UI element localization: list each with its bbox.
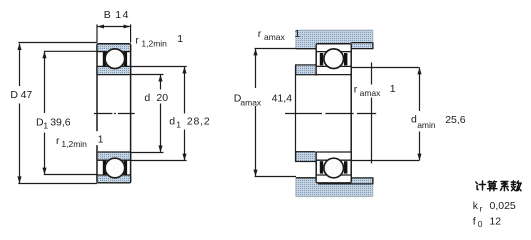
ext line d bottom	[131, 152, 164, 154]
dim line D (broken for text)	[19, 44, 21, 183]
svg-text:1: 1	[294, 28, 300, 40]
svg-text:amax: amax	[264, 32, 286, 42]
inner ring top band right view	[316, 66, 351, 74]
shaft shoulder bottom-left	[296, 152, 317, 162]
inner ring bottom band	[97, 152, 131, 160]
svg-text:r: r	[135, 34, 139, 46]
arrow d top	[158, 75, 162, 82]
ext line D top	[18, 42, 97, 44]
svg-text:k: k	[473, 200, 479, 212]
bore region mask (hide left edge of bearing in bore zone)	[315, 76, 318, 152]
dimension d1 28,2	[131, 67, 187, 161]
slot bar bottom-left right view	[320, 161, 323, 173]
ext line D1 bottom	[44, 174, 97, 176]
bearing outline right view	[316, 44, 351, 183]
dim line B	[97, 26, 130, 28]
heading 计算系数 (hand-drawn strokes)	[476, 181, 522, 191]
svg-text:1: 1	[390, 83, 396, 95]
ball top	[105, 49, 125, 69]
svg-text:47: 47	[21, 89, 33, 101]
axis center line left view	[94, 113, 135, 115]
svg-text:14: 14	[115, 9, 130, 21]
arrow D bottom	[17, 176, 21, 183]
arrow d1 bottom	[182, 154, 186, 161]
ext line D1 top	[44, 50, 97, 52]
dimension D1 39,6	[44, 51, 97, 174]
arrow B left	[97, 25, 104, 29]
slot bar bottom-left	[103, 161, 106, 175]
ball bottom	[105, 158, 125, 178]
svg-text:41,4: 41,4	[272, 93, 293, 105]
svg-text:25,6: 25,6	[445, 114, 466, 126]
bearing 6204 outline left view	[97, 44, 131, 183]
svg-text:d: d	[169, 116, 175, 128]
svg-text:r: r	[480, 203, 483, 213]
outer ring bottom band	[97, 175, 131, 183]
ext line d1 bottom	[131, 160, 187, 162]
ball bottom right view	[324, 158, 344, 178]
arrow da bottom	[417, 154, 421, 161]
ext line B left	[96, 24, 98, 42]
ext line Da bottom	[255, 176, 296, 178]
char ji 计	[476, 181, 486, 190]
slot bar bottom-right	[124, 161, 127, 175]
dimension Da 41,4	[255, 49, 296, 177]
svg-text:r: r	[56, 135, 60, 147]
dimension B	[97, 24, 131, 42]
svg-text:1: 1	[98, 134, 104, 146]
dim line D1 (broken for text)	[44, 52, 46, 175]
housing bottom contour	[296, 178, 373, 184]
char shu 数	[511, 181, 521, 191]
housing bottom soft edges	[296, 195, 373, 197]
axis center line right view	[285, 113, 376, 115]
slot bar bottom-right right view	[344, 161, 347, 173]
ext line d1 top	[131, 66, 187, 68]
dimension d 20	[131, 75, 164, 153]
abutment sleeve right: bottom surface / d_a bottom ext line	[351, 160, 419, 162]
svg-text:39,6: 39,6	[50, 117, 71, 129]
arrow Da bottom	[253, 170, 257, 177]
inner ring top band	[97, 66, 131, 74]
char xi 系	[501, 182, 509, 191]
char suan 算	[488, 181, 498, 191]
svg-text:d: d	[144, 92, 150, 104]
arrow d bottom	[158, 146, 162, 153]
svg-text:f: f	[473, 216, 476, 228]
svg-text:D: D	[10, 89, 18, 101]
svg-text:12: 12	[489, 216, 501, 228]
svg-text:1: 1	[176, 120, 181, 130]
svg-text:1: 1	[177, 33, 183, 45]
svg-text:1: 1	[43, 120, 48, 130]
arrow D1 bottom	[42, 168, 46, 175]
svg-text:0,025: 0,025	[490, 200, 516, 212]
dim line d1 (broken for text)	[184, 67, 186, 161]
arrow D top	[17, 43, 21, 50]
housing top channel	[296, 30, 373, 49]
svg-text:0: 0	[478, 219, 483, 229]
dimension da 25,6	[419, 68, 421, 161]
svg-text:r: r	[354, 84, 358, 96]
dim line Da (broken for text)	[255, 49, 257, 177]
outer ring bottom band right view	[316, 175, 351, 183]
ext line B right	[130, 24, 132, 42]
outer ring top band	[97, 44, 131, 52]
svg-text:amin: amin	[417, 120, 436, 130]
arrow da top	[417, 68, 421, 75]
svg-text:B: B	[104, 9, 111, 21]
arrow Da top	[253, 49, 257, 56]
shaft cut end line	[295, 65, 297, 162]
arrow D1 top	[42, 51, 46, 58]
outer ring top band right view	[316, 44, 351, 52]
svg-text:20: 20	[156, 92, 168, 104]
svg-text:amax: amax	[360, 88, 382, 98]
ext line Da top	[255, 48, 296, 50]
slot bar top-left right view	[320, 53, 323, 65]
abutment sleeve end face	[371, 62, 373, 163]
slot bar top-right	[124, 52, 127, 66]
housing bottom channel	[296, 178, 373, 197]
ball top right view	[324, 49, 344, 69]
svg-text:amax: amax	[240, 97, 262, 107]
svg-text:r: r	[258, 28, 262, 40]
inner ring bottom band right view	[316, 152, 351, 160]
abutment sleeve right: top surface / d_a top ext line	[351, 67, 419, 69]
svg-text:d: d	[411, 113, 417, 125]
svg-text:28,2: 28,2	[187, 116, 211, 128]
housing top contour	[296, 43, 373, 49]
dimension D 47	[18, 43, 97, 184]
dim line da (broken for text)	[419, 68, 421, 161]
arrow B right	[124, 25, 131, 29]
slot bar top-left	[103, 52, 106, 66]
svg-text:1,2min: 1,2min	[61, 139, 87, 149]
dim line d (broken for text)	[160, 75, 162, 152]
ext line d top	[131, 74, 164, 76]
slot bar top-right right view	[344, 53, 347, 65]
svg-text:1,2min: 1,2min	[141, 39, 167, 49]
arrow d1 top	[182, 67, 186, 74]
shaft shoulder top-left	[296, 65, 317, 75]
ext line D bottom	[18, 183, 97, 185]
housing top soft edges	[296, 29, 373, 31]
